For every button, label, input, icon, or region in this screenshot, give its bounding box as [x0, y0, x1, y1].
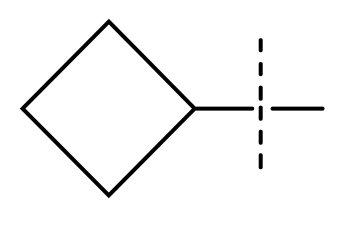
bond segment right of disconnection — [273, 107, 323, 111]
disconnection dash 6 — [259, 155, 263, 167]
disconnection dash 2 — [259, 64, 263, 74]
bond segment left of disconnection — [197, 107, 253, 111]
disconnection dash 4 — [259, 108, 263, 119]
cyclobutane ring (diamond) — [23, 22, 195, 196]
disconnection dash 1 — [259, 40, 263, 50]
disconnection dash 5 — [259, 132, 263, 143]
disconnection dash 3 — [259, 88, 263, 99]
